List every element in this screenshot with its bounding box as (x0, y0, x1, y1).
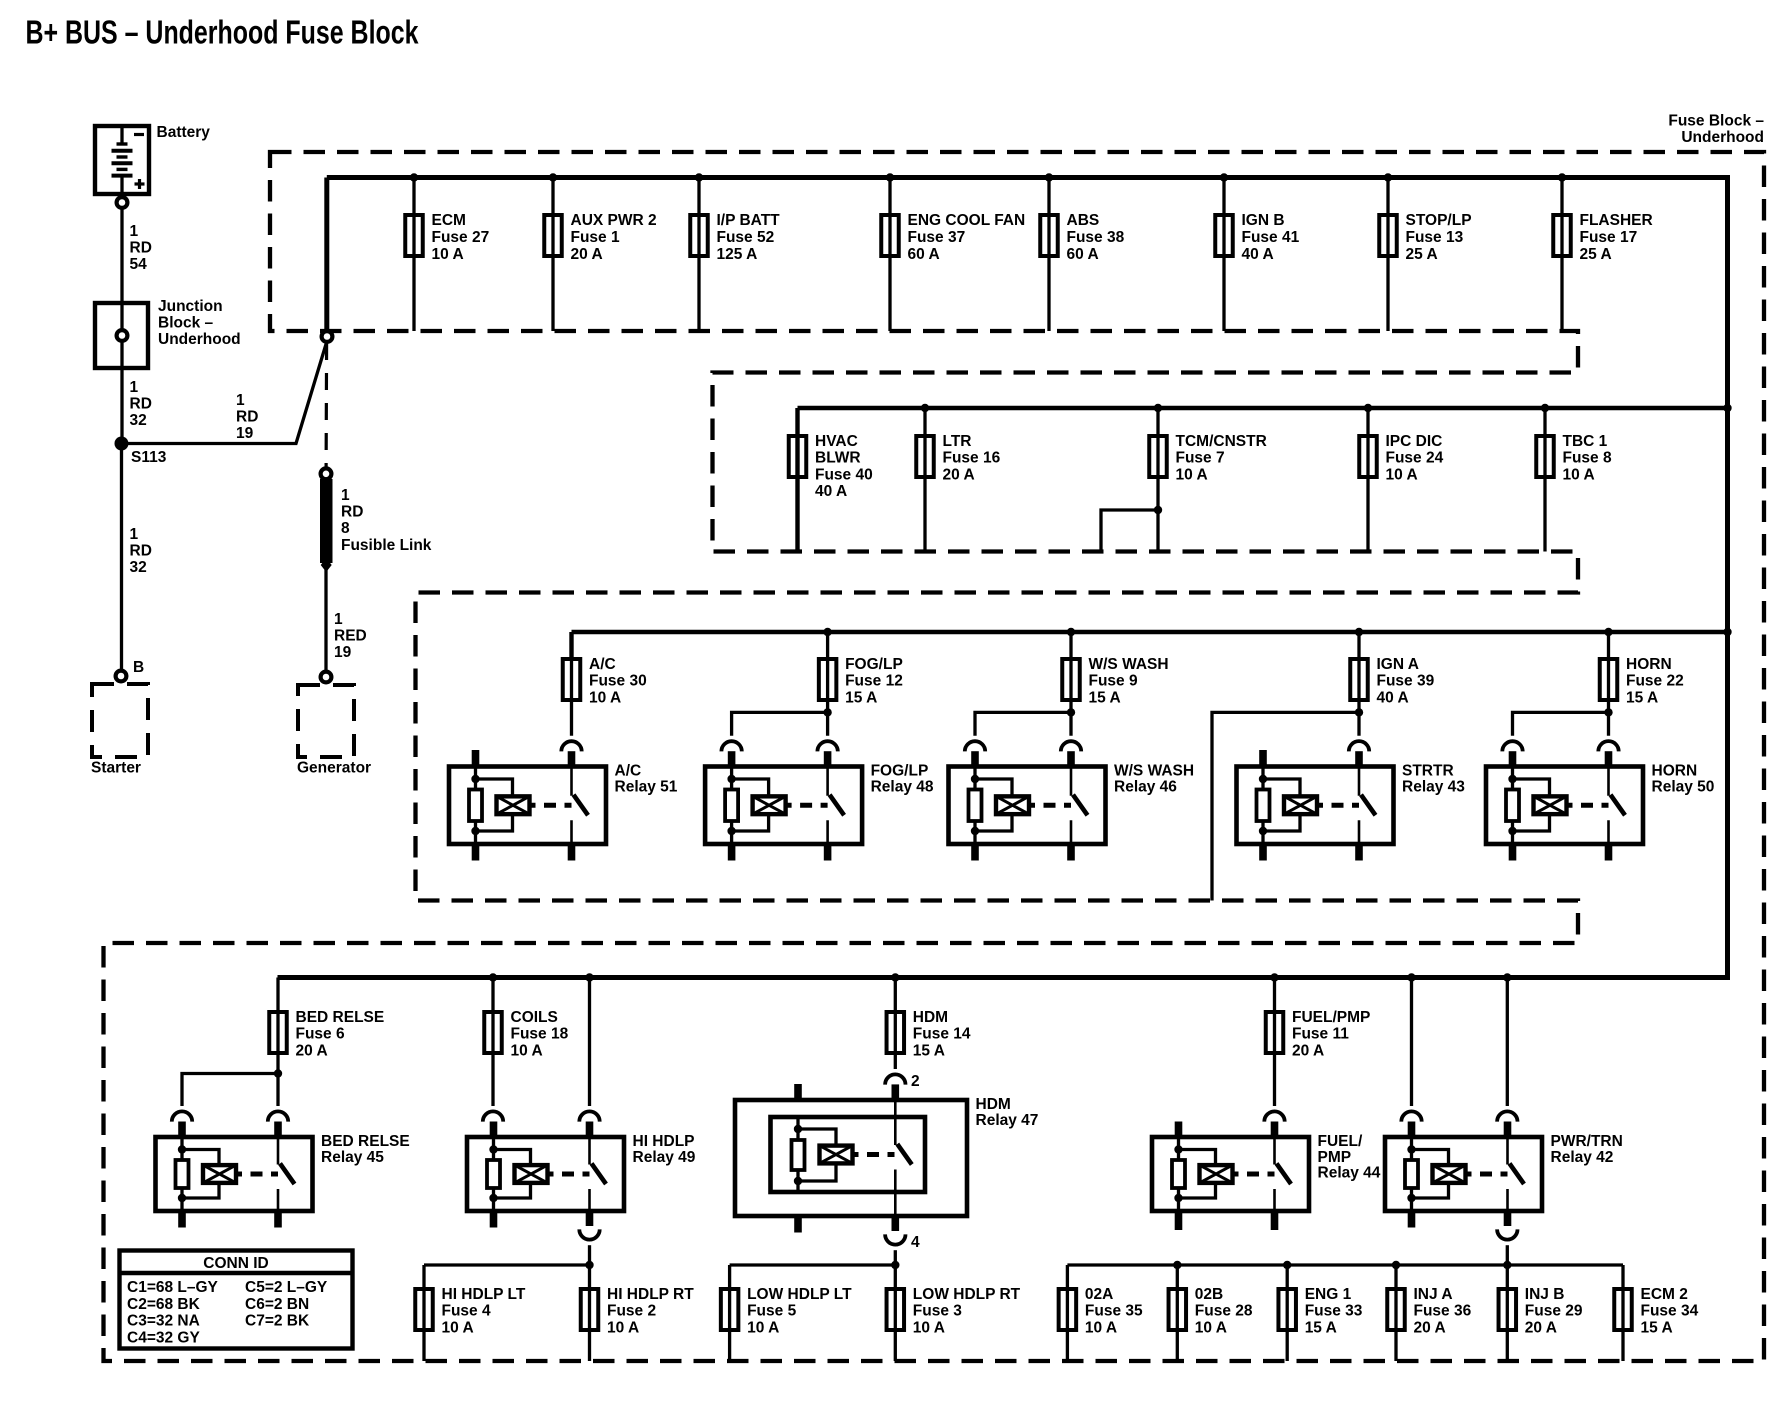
fuse F1 AUX PWR 2 (544, 212, 656, 263)
relay Relay 49 Relay 49 (467, 1133, 696, 1211)
svg-text:Fuse 5: Fuse 5 (747, 1303, 796, 1320)
svg-text:10 A: 10 A (747, 1319, 779, 1336)
svg-text:IGN A: IGN A (1377, 656, 1419, 673)
pin stubs HDM relay (794, 1084, 802, 1100)
svg-text:Relay 50: Relay 50 (1652, 778, 1715, 795)
wire bus to fuse F7 TCM/CNSTR (with jog) (1101, 408, 1158, 552)
svg-text:W/S WASH: W/S WASH (1114, 763, 1194, 780)
wire bus4 to fuse F18 COILS + HI HDLP relay coil (491, 978, 494, 1107)
svg-text:Fuse 12: Fuse 12 (845, 673, 903, 690)
svg-text:RD: RD (341, 504, 363, 521)
svg-text:Fuse 9: Fuse 9 (1089, 673, 1138, 690)
svg-text:Fuse 4: Fuse 4 (442, 1303, 491, 1320)
svg-text:32: 32 (130, 559, 147, 576)
pin stubs BED RELSE relay (178, 1122, 186, 1138)
svg-text:HI HDLP RT: HI HDLP RT (607, 1286, 694, 1303)
fuse F6 BED RELSE (269, 1009, 384, 1060)
fuse F30 A/C (563, 656, 647, 707)
svg-text:S113: S113 (131, 449, 167, 466)
svg-text:HI HDLP: HI HDLP (633, 1133, 695, 1150)
svg-text:1: 1 (341, 487, 350, 504)
wire bus to fuse F39 IGN A (1357, 632, 1360, 712)
fuse F7 TCM/CNSTR (1149, 433, 1267, 484)
svg-text:10 A: 10 A (1085, 1319, 1117, 1336)
wire bus to fuse F36 INJ A (1394, 1265, 1397, 1361)
svg-text:10 A: 10 A (1563, 466, 1595, 483)
svg-text:Underhood: Underhood (158, 331, 241, 348)
fuse F35 02A (1059, 1286, 1143, 1337)
svg-text:Fuse 24: Fuse 24 (1386, 450, 1444, 467)
wire (dashed) to fusible link (325, 343, 329, 467)
pin stubs PWR/TRN relay (1408, 1122, 1416, 1138)
wire bus row 2 (798, 406, 1728, 410)
svg-text:BED RELSE: BED RELSE (296, 1009, 385, 1026)
svg-text:Fuse 41: Fuse 41 (1242, 229, 1300, 246)
svg-text:Underhood: Underhood (1681, 129, 1764, 146)
svg-text:INJ A: INJ A (1414, 1286, 1453, 1303)
svg-text:Fuse 34: Fuse 34 (1641, 1303, 1699, 1320)
svg-text:32: 32 (130, 412, 147, 429)
wire B+ bus (top) + right trunk + bus row 4 (278, 178, 1728, 978)
svg-text:Fuse 8: Fuse 8 (1563, 450, 1612, 467)
svg-text:COILS: COILS (511, 1009, 558, 1026)
svg-text:HVAC: HVAC (815, 433, 858, 450)
svg-text:20 A: 20 A (1525, 1319, 1557, 1336)
pin stubs Relay 50 (1509, 751, 1517, 766)
svg-text:20 A: 20 A (943, 466, 975, 483)
wire bus to fuse F17 FLASHER (1560, 178, 1563, 332)
svg-text:Relay 48: Relay 48 (871, 778, 934, 795)
svg-text:Relay 51: Relay 51 (615, 778, 678, 795)
svg-text:Fuse 40: Fuse 40 (815, 466, 873, 483)
pin stubs A/C relay (472, 750, 480, 767)
fuse F4 HI HDLP LT (415, 1286, 526, 1337)
svg-text:19: 19 (236, 425, 254, 442)
svg-text:Fusible Link: Fusible Link (341, 537, 432, 554)
svg-text:15 A: 15 A (845, 689, 877, 706)
svg-text:20 A: 20 A (1414, 1319, 1446, 1336)
wire bus to fuse F1 AUX PWR 2 (551, 178, 554, 332)
svg-text:Fuse 16: Fuse 16 (943, 450, 1001, 467)
fusible link connector (321, 468, 332, 479)
svg-text:Fuse 38: Fuse 38 (1067, 229, 1125, 246)
relay Relay 46 Relay 46 (949, 763, 1195, 845)
svg-text:10 A: 10 A (607, 1319, 639, 1336)
fuse F34 ECM 2 (1614, 1286, 1698, 1337)
svg-text:Fuse 22: Fuse 22 (1626, 673, 1684, 690)
wire bus to fuse F35 02A (1066, 1265, 1069, 1361)
svg-text:FUEL/PMP: FUEL/PMP (1292, 1009, 1370, 1026)
svg-text:19: 19 (334, 644, 352, 661)
relay Relay 47 HDM (735, 1096, 1038, 1216)
svg-text:TBC 1: TBC 1 (1563, 433, 1608, 450)
svg-text:Relay 43: Relay 43 (1402, 778, 1465, 795)
svg-text:1: 1 (130, 223, 139, 240)
svg-text:02A: 02A (1085, 1286, 1113, 1303)
relay Relay 45 Relay 45 (156, 1133, 410, 1211)
pin stubs Relay 48 (728, 751, 736, 766)
svg-text:40 A: 40 A (1242, 246, 1274, 263)
svg-text:25 A: 25 A (1580, 246, 1612, 263)
relay Relay 42 Relay 42 (1385, 1133, 1623, 1211)
svg-text:RD: RD (130, 396, 152, 413)
wire fuse F12 FOG/LP split to relay pins (732, 712, 828, 735)
svg-text:HDM: HDM (913, 1009, 948, 1026)
fuse F17 FLASHER (1553, 212, 1652, 263)
relay Relay 44 Relay 44 (1152, 1133, 1381, 1211)
wire bus to fuse F22 HORN (1607, 632, 1610, 712)
relay Relay 48 Relay 48 (705, 763, 934, 845)
wire IGN A split: branch to box edge + STRTR relay (1212, 712, 1359, 900)
svg-text:8: 8 (341, 520, 350, 537)
svg-text:INJ B: INJ B (1525, 1286, 1565, 1303)
svg-text:W/S WASH: W/S WASH (1089, 656, 1169, 673)
svg-text:A/C: A/C (589, 656, 616, 673)
svg-text:AUX PWR 2: AUX PWR 2 (571, 212, 657, 229)
svg-text:Generator: Generator (297, 760, 371, 777)
pin stubs Relay 46 (971, 751, 979, 766)
svg-text:Relay 46: Relay 46 (1114, 778, 1177, 795)
svg-text:Fuse 30: Fuse 30 (589, 673, 647, 690)
wire bus4 drop BED RELSE fuse (276, 978, 279, 1074)
wire bus to fuse F4 HI HDLP LT (422, 1265, 425, 1361)
svg-text:60 A: 60 A (1067, 246, 1099, 263)
relay Relay 50 Relay 50 (1486, 763, 1714, 845)
wire bus to fuse F27 ECM (412, 178, 415, 332)
svg-text:RD: RD (130, 543, 152, 560)
svg-text:C2=68 BK: C2=68 BK (127, 1296, 201, 1313)
wire bus row 3 (572, 630, 1728, 634)
wire bus4 to fuse F14 HDM + relay pin 2 (894, 978, 897, 1070)
fuse F27 ECM (405, 212, 489, 263)
fuse F2 HI HDLP RT (581, 1286, 694, 1337)
svg-text:STRTR: STRTR (1402, 763, 1454, 780)
svg-text:C4=32 GY: C4=32 GY (127, 1330, 200, 1347)
svg-text:ECM: ECM (432, 212, 466, 229)
svg-text:B+ BUS – Underhood Fuse Block: B+ BUS – Underhood Fuse Block (26, 14, 419, 51)
wire bus to fuse F9 W/S WASH (1069, 632, 1072, 712)
svg-text:Fuse 11: Fuse 11 (1292, 1026, 1349, 1043)
fuse F11 FUEL/PMP (1266, 1009, 1371, 1060)
svg-text:Relay 42: Relay 42 (1551, 1149, 1614, 1166)
svg-text:Battery: Battery (157, 124, 211, 141)
wire bus to fuse F33 ENG 1 (1286, 1265, 1289, 1361)
wire bus4 to fuse F11 FUEL/PMP + relay (1273, 978, 1276, 1107)
svg-text:15 A: 15 A (1641, 1319, 1673, 1336)
svg-text:LOW HDLP RT: LOW HDLP RT (913, 1286, 1021, 1303)
fuse F28 02B (1169, 1286, 1253, 1337)
fuse F13 STOP/LP (1379, 212, 1471, 263)
fuse F36 INJ A (1387, 1286, 1471, 1337)
starter terminal B (116, 671, 127, 682)
svg-text:HDM: HDM (976, 1096, 1011, 1113)
svg-text:Fuse 29: Fuse 29 (1525, 1303, 1583, 1320)
starter (dashed box) (92, 684, 148, 757)
svg-text:Fuse 7: Fuse 7 (1176, 450, 1225, 467)
svg-text:20 A: 20 A (296, 1042, 328, 1059)
svg-text:40 A: 40 A (815, 483, 847, 500)
wire S113 to starter (120, 444, 123, 670)
wire junction block to S113 (120, 342, 123, 444)
relay Relay 51 A/C (449, 763, 678, 845)
svg-text:Relay 49: Relay 49 (633, 1149, 696, 1166)
svg-text:1: 1 (130, 526, 139, 543)
pin stubs HI HDLP relay (490, 1122, 498, 1138)
svg-text:BLWR: BLWR (815, 450, 861, 467)
svg-text:Relay 44: Relay 44 (1318, 1165, 1381, 1182)
svg-text:RD: RD (130, 240, 152, 257)
fuse F22 HORN (1600, 656, 1684, 707)
fuse F52 I/P BATT (690, 212, 780, 263)
fuse F29 INJ B (1499, 1286, 1583, 1337)
fuse F3 LOW HDLP RT (887, 1286, 1021, 1337)
svg-text:Fuse 33: Fuse 33 (1305, 1303, 1363, 1320)
wire bus to fuse F52 I/P BATT (697, 178, 700, 332)
fuse F33 ENG 1 (1278, 1286, 1362, 1337)
junction block underhood (95, 298, 241, 368)
pin stubs FUEL/PMP relay (1175, 1122, 1183, 1138)
svg-text:1: 1 (334, 611, 343, 628)
wire bus4 to PWR/TRN relay pins (1410, 978, 1413, 1107)
svg-text:FUEL/: FUEL/ (1318, 1133, 1363, 1150)
svg-text:Block –: Block – (158, 315, 214, 332)
svg-text:A/C: A/C (615, 763, 642, 780)
wire PWR/TRN relay output to bottom bus (1497, 1229, 1517, 1239)
svg-text:1: 1 (236, 392, 245, 409)
svg-text:FOG/LP: FOG/LP (871, 763, 929, 780)
svg-text:60 A: 60 A (908, 246, 940, 263)
svg-text:Fuse 14: Fuse 14 (913, 1026, 971, 1043)
fuse F5 LOW HDLP LT (721, 1286, 852, 1337)
fuse F40 HVAC BLWR (789, 433, 873, 500)
svg-text:Fuse Block –: Fuse Block – (1668, 113, 1764, 130)
wire bus to fuse F38 ABS (1047, 178, 1050, 332)
svg-text:TCM/CNSTR: TCM/CNSTR (1176, 433, 1267, 450)
svg-text:PMP: PMP (1318, 1149, 1352, 1166)
wire HDM relay pin 4 to low beam bus (885, 1234, 905, 1244)
wire battery to junction block (120, 209, 123, 303)
svg-text:STOP/LP: STOP/LP (1406, 212, 1472, 229)
svg-text:BED RELSE: BED RELSE (321, 1133, 410, 1150)
svg-text:C7=2 BK: C7=2 BK (245, 1313, 310, 1330)
svg-text:10 A: 10 A (913, 1319, 945, 1336)
svg-text:LOW HDLP LT: LOW HDLP LT (747, 1286, 852, 1303)
fuse F16 LTR (916, 433, 1000, 484)
battery (95, 124, 210, 196)
svg-text:20 A: 20 A (571, 246, 603, 263)
wire bottom bus (O2/INJ/ECM) (1067, 1263, 1623, 1266)
svg-text:15 A: 15 A (1089, 689, 1121, 706)
svg-text:C6=2 BN: C6=2 BN (245, 1296, 309, 1313)
pin stubs STRTR relay (1259, 750, 1267, 767)
svg-text:Fuse 39: Fuse 39 (1377, 673, 1435, 690)
svg-text:40 A: 40 A (1377, 689, 1409, 706)
svg-text:CONN ID: CONN ID (203, 1255, 268, 1272)
wire bus to fuse F12 FOG/LP (826, 632, 829, 712)
svg-text:Fuse 52: Fuse 52 (717, 229, 775, 246)
svg-text:Fuse 13: Fuse 13 (1406, 229, 1464, 246)
wire bus to fuse F13 STOP/LP (1386, 178, 1389, 332)
wire bus to fuse F34 ECM 2 (1621, 1265, 1624, 1361)
fuse F9 W/S WASH (1062, 656, 1168, 707)
wire bus to fuse F29 INJ B (1506, 1265, 1509, 1361)
svg-text:02B: 02B (1195, 1286, 1223, 1303)
svg-text:C3=32 NA: C3=32 NA (127, 1313, 200, 1330)
svg-text:Fuse 17: Fuse 17 (1580, 229, 1638, 246)
svg-text:Fuse 2: Fuse 2 (607, 1303, 656, 1320)
fuse F14 HDM (887, 1009, 971, 1060)
svg-text:HORN: HORN (1652, 763, 1698, 780)
svg-text:10 A: 10 A (432, 246, 464, 263)
wire bus to fuse F5 LOW HDLP LT (728, 1265, 731, 1361)
wire bus to fuse F8 TBC 1 (1543, 408, 1546, 552)
fuse F39 IGN A (1350, 656, 1434, 707)
fuse F18 COILS (484, 1009, 568, 1060)
wire S113 to fuse block entry (122, 343, 327, 444)
svg-text:10 A: 10 A (589, 689, 621, 706)
wire bus4 to HI HDLP relay switch pin (588, 978, 591, 1107)
svg-text:Relay 45: Relay 45 (321, 1149, 384, 1166)
fuse F8 TBC 1 (1536, 433, 1612, 484)
svg-text:2: 2 (911, 1073, 920, 1090)
svg-text:PWR/TRN: PWR/TRN (1551, 1133, 1623, 1150)
svg-text:10 A: 10 A (442, 1319, 474, 1336)
wire BED RELSE split to relay pins (182, 1074, 278, 1107)
fuse F38 ABS (1040, 212, 1124, 263)
generator terminal (321, 672, 332, 683)
svg-text:RD: RD (236, 409, 258, 426)
svg-text:Fuse 35: Fuse 35 (1085, 1303, 1143, 1320)
svg-text:4: 4 (911, 1234, 920, 1251)
svg-text:HORN: HORN (1626, 656, 1672, 673)
svg-text:Fuse 27: Fuse 27 (432, 229, 490, 246)
svg-text:ECM 2: ECM 2 (1641, 1286, 1688, 1303)
svg-text:ENG 1: ENG 1 (1305, 1286, 1352, 1303)
svg-text:Starter: Starter (91, 760, 141, 777)
wire fusible link to generator (324, 567, 327, 671)
svg-text:B: B (133, 659, 144, 676)
svg-text:HI HDLP LT: HI HDLP LT (442, 1286, 526, 1303)
svg-text:10 A: 10 A (1386, 466, 1418, 483)
wire bus to fuse F28 02B (1176, 1265, 1179, 1361)
svg-text:Fuse 6: Fuse 6 (296, 1026, 345, 1043)
wire bus to fuse F37 ENG COOL FAN (888, 178, 891, 332)
svg-text:IGN B: IGN B (1242, 212, 1285, 229)
svg-text:15 A: 15 A (1626, 689, 1658, 706)
svg-text:Relay 47: Relay 47 (976, 1112, 1039, 1129)
svg-text:I/P BATT: I/P BATT (717, 212, 781, 229)
wire bus to fuse F2 HI HDLP RT (588, 1265, 591, 1361)
wire bus to fuse F3 LOW HDLP RT (894, 1265, 897, 1361)
wire fuse F9 W/S WASH split to relay pins (975, 712, 1071, 735)
wire bus2 drop HVAC (795, 408, 799, 552)
svg-text:Junction: Junction (158, 298, 223, 315)
svg-text:20 A: 20 A (1292, 1042, 1324, 1059)
svg-text:ABS: ABS (1067, 212, 1100, 229)
wire HI HDLP relay output to headlamp bus (579, 1229, 599, 1239)
svg-text:RED: RED (334, 628, 367, 645)
fuse F41 IGN B (1215, 212, 1299, 263)
svg-text:C1=68 L–GY: C1=68 L–GY (127, 1279, 219, 1296)
wire high-beam bus (424, 1263, 590, 1266)
fuse block entry connector (322, 331, 333, 342)
svg-text:Fuse 28: Fuse 28 (1195, 1303, 1253, 1320)
svg-text:Fuse 1: Fuse 1 (571, 229, 620, 246)
battery terminal connector (117, 197, 128, 208)
svg-text:LTR: LTR (943, 433, 972, 450)
svg-text:25 A: 25 A (1406, 246, 1438, 263)
svg-text:Fuse 36: Fuse 36 (1414, 1303, 1472, 1320)
svg-text:10 A: 10 A (1176, 466, 1208, 483)
wire bus3 drop A/C fuse + feed to relay (569, 632, 573, 660)
svg-text:FLASHER: FLASHER (1580, 212, 1653, 229)
generator (dashed box) (298, 685, 354, 757)
fusible link (320, 479, 432, 572)
fuse F24 IPC DIC (1359, 433, 1443, 484)
svg-text:Fuse 37: Fuse 37 (908, 229, 966, 246)
CONN ID table (120, 1251, 353, 1349)
svg-text:Fuse 3: Fuse 3 (913, 1303, 962, 1320)
svg-text:ENG COOL FAN: ENG COOL FAN (908, 212, 1026, 229)
svg-text:10 A: 10 A (511, 1042, 543, 1059)
svg-text:125 A: 125 A (717, 246, 758, 263)
wire bus to fuse F16 LTR (923, 408, 926, 552)
svg-text:10 A: 10 A (1195, 1319, 1227, 1336)
wire low-beam bus (730, 1263, 896, 1266)
svg-text:15 A: 15 A (1305, 1319, 1337, 1336)
svg-text:FOG/LP: FOG/LP (845, 656, 903, 673)
wire bus to fuse F24 IPC DIC (1366, 408, 1369, 552)
svg-text:1: 1 (130, 379, 139, 396)
wire bus to fuse F41 IGN B (1222, 178, 1225, 332)
fuse F37 ENG COOL FAN (881, 212, 1025, 263)
fuse F12 FOG/LP (819, 656, 903, 707)
node S113 (115, 437, 129, 451)
svg-text:54: 54 (130, 256, 148, 273)
svg-text:15 A: 15 A (913, 1042, 945, 1059)
svg-text:Fuse 18: Fuse 18 (511, 1026, 569, 1043)
relay Relay 43 Relay 43 (1237, 763, 1466, 845)
wire fuse F22 HORN split to relay pins (1513, 712, 1609, 735)
svg-text:IPC DIC: IPC DIC (1386, 433, 1443, 450)
svg-text:C5=2 L–GY: C5=2 L–GY (245, 1279, 328, 1296)
